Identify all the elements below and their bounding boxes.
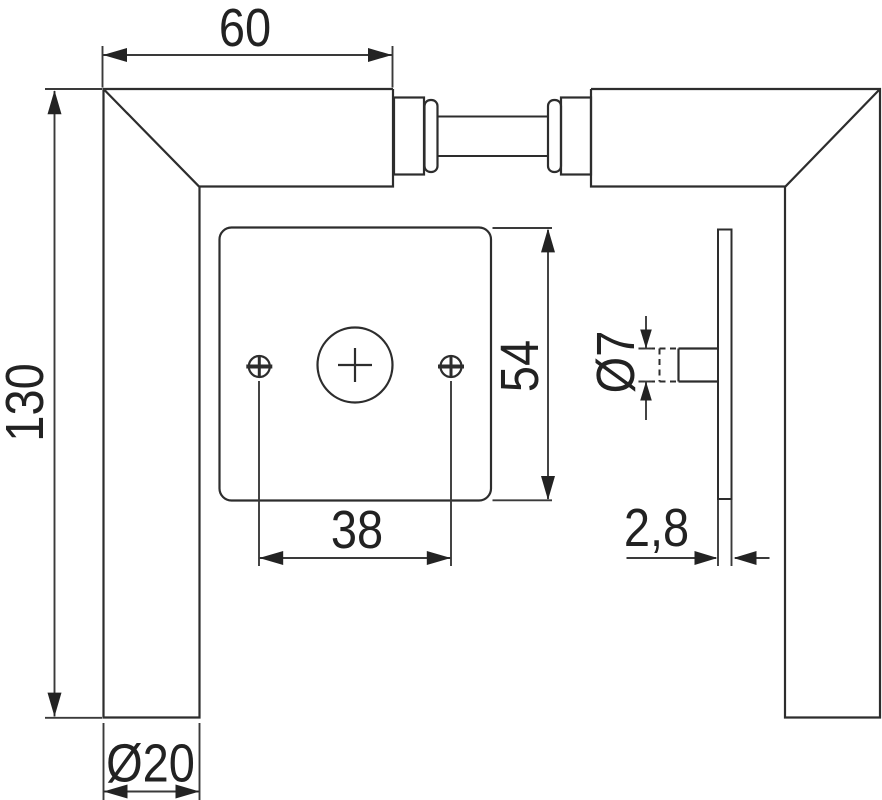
svg-text:130: 130 [0,363,55,441]
svg-text:Ø7: Ø7 [585,331,646,394]
svg-text:2,8: 2,8 [624,497,689,558]
svg-text:38: 38 [331,499,383,560]
svg-text:Ø20: Ø20 [106,732,195,793]
svg-text:54: 54 [489,340,550,392]
svg-text:60: 60 [219,0,271,58]
